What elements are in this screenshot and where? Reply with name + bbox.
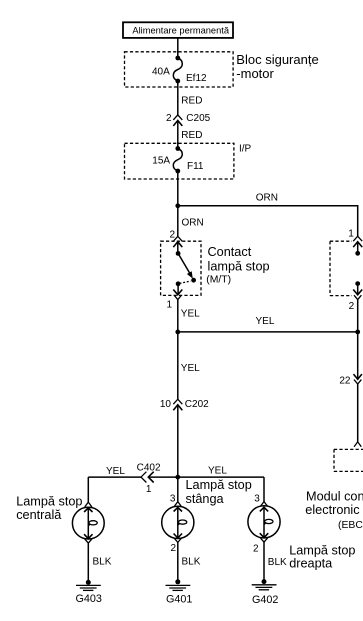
switch connector pin 1 xyxy=(173,290,182,300)
svg-text:Alimentare permanentă: Alimentare permanentă xyxy=(132,25,229,35)
svg-text:I/P: I/P xyxy=(239,144,252,155)
ground G403 xyxy=(76,580,101,591)
right box connector pin 2 xyxy=(353,290,362,300)
svg-text:YEL: YEL xyxy=(256,316,275,327)
wire C202 to bottom junction xyxy=(177,405,179,502)
svg-text:BLK: BLK xyxy=(268,557,287,568)
svg-text:1: 1 xyxy=(146,484,152,495)
svg-text:BLK: BLK xyxy=(93,557,112,568)
wire C205 to fuse F11 xyxy=(177,121,179,149)
ABS connector box dashed xyxy=(330,241,352,295)
wire right branch down to pin 22 xyxy=(357,300,359,380)
wire from power box to fuse block xyxy=(177,38,179,58)
wire ORN horizontal to right branch xyxy=(178,206,358,236)
wire switch to C202 (YEL) xyxy=(177,300,179,400)
EBCM module box dashed xyxy=(334,449,363,471)
lamp stop centrala xyxy=(72,507,104,539)
svg-text:ORN: ORN xyxy=(182,218,204,229)
left lamp connector top xyxy=(84,502,92,512)
wire switch lower contact to pin 1 xyxy=(177,284,179,295)
svg-text:22: 22 xyxy=(339,376,351,387)
svg-text:(M/T): (M/T) xyxy=(206,275,231,286)
ground G402 xyxy=(252,579,277,590)
connector pin 22 xyxy=(354,374,362,384)
svg-text:G401: G401 xyxy=(166,593,192,605)
wire fuse Ef12 to connector C205 xyxy=(177,81,179,115)
connector C205 pin 2 xyxy=(173,115,182,126)
svg-text:centrală: centrală xyxy=(16,508,62,522)
wire pin1 to contact dot xyxy=(357,242,359,254)
svg-text:-motor: -motor xyxy=(236,66,274,81)
svg-text:YEL: YEL xyxy=(181,363,200,374)
wire bottom YEL horizontal right xyxy=(148,476,264,478)
fuse Ef12 40A xyxy=(173,56,182,84)
svg-text:15A: 15A xyxy=(152,156,170,167)
wire YEL horizontal mid xyxy=(178,331,358,333)
connector C202 pin 10 xyxy=(173,399,182,410)
svg-text:C205: C205 xyxy=(186,113,210,124)
node bottom YEL junction xyxy=(175,475,180,480)
switch connector pin 2 xyxy=(173,236,182,247)
svg-text:stânga: stânga xyxy=(186,492,225,506)
svg-text:lampă stop: lampă stop xyxy=(208,259,270,273)
wire F11 to switch, through ORN junction xyxy=(177,171,179,236)
lamp stop stanga xyxy=(162,506,194,538)
node YEL junction right xyxy=(355,330,360,335)
svg-text:Ef12: Ef12 xyxy=(186,73,207,84)
svg-text:RED: RED xyxy=(181,130,202,141)
svg-text:Lampă stop: Lampă stop xyxy=(186,478,252,492)
svg-text:Modul control: Modul control xyxy=(306,490,363,504)
wire drop to left lamp xyxy=(87,477,89,502)
svg-text:Lampă stop: Lampă stop xyxy=(16,495,82,509)
node right box upper contact xyxy=(355,251,360,256)
node right box lower contact xyxy=(355,281,360,286)
svg-text:ORN: ORN xyxy=(256,193,278,204)
switch contacts and blade xyxy=(176,251,196,286)
left lamp connector bottom xyxy=(85,539,92,543)
svg-text:YEL: YEL xyxy=(181,309,200,320)
right branch connector pin 1 into ABS box xyxy=(353,236,362,247)
svg-text:YEL: YEL xyxy=(106,466,125,477)
svg-text:Bloc siguranțe: Bloc siguranțe xyxy=(236,52,318,67)
wire drop to right lamp xyxy=(263,477,265,502)
svg-text:Contact: Contact xyxy=(208,245,252,259)
svg-text:2: 2 xyxy=(169,230,175,241)
right lamp connector top pin 3 xyxy=(260,502,268,512)
middle lamp connector top pin 3 xyxy=(174,502,182,512)
svg-text:G403: G403 xyxy=(76,593,102,605)
svg-text:YEL: YEL xyxy=(208,466,227,477)
fuse block box (Bloc sigurante motor) xyxy=(125,52,234,87)
right lamp connector bottom pin 2 xyxy=(260,538,267,542)
EBCM wire end fork xyxy=(354,442,361,447)
ground G401 xyxy=(166,579,191,590)
wire pin 22 to EBCM xyxy=(357,384,359,442)
node ORN junction xyxy=(175,203,180,208)
wire into switch upper contact xyxy=(177,242,179,254)
power source box "Alimentare permanenta" xyxy=(123,22,233,38)
svg-text:10: 10 xyxy=(160,399,172,410)
svg-text:F11: F11 xyxy=(187,161,204,172)
svg-text:2: 2 xyxy=(253,544,259,555)
svg-text:2: 2 xyxy=(349,301,355,312)
svg-text:1: 1 xyxy=(166,300,172,311)
svg-text:40A: 40A xyxy=(152,67,170,78)
I/P fuse box xyxy=(125,143,234,179)
svg-text:BLK: BLK xyxy=(182,557,201,568)
middle lamp connector bottom pin 2 xyxy=(174,538,181,542)
svg-text:2: 2 xyxy=(170,543,176,554)
svg-text:dreapta: dreapta xyxy=(289,557,333,571)
svg-text:3: 3 xyxy=(254,494,260,505)
fuse F11 15A xyxy=(173,146,182,173)
wire bottom YEL horizontal left to C402 xyxy=(88,476,141,478)
svg-text:G402: G402 xyxy=(252,594,278,606)
wire right lamp to ground xyxy=(263,542,265,582)
svg-text:C202: C202 xyxy=(185,399,209,410)
connector C402 pin 1 xyxy=(141,472,154,483)
wire lower contact to pin 2 xyxy=(357,284,359,295)
svg-text:3: 3 xyxy=(170,494,176,505)
svg-text:1: 1 xyxy=(348,229,354,240)
svg-text:RED: RED xyxy=(181,96,202,107)
svg-text:(EBCM): (EBCM) xyxy=(338,520,363,531)
svg-text:Lampă stop: Lampă stop xyxy=(289,543,355,557)
switch box (Contact lampa stop) xyxy=(161,241,201,295)
wire left lamp to ground xyxy=(87,543,89,582)
node YEL junction left xyxy=(175,330,180,335)
svg-text:electronic: electronic xyxy=(305,503,360,517)
svg-text:C402: C402 xyxy=(137,463,161,474)
lamp stop dreapta xyxy=(248,506,280,538)
svg-text:2: 2 xyxy=(166,113,172,124)
wire middle lamp to ground xyxy=(177,542,179,581)
